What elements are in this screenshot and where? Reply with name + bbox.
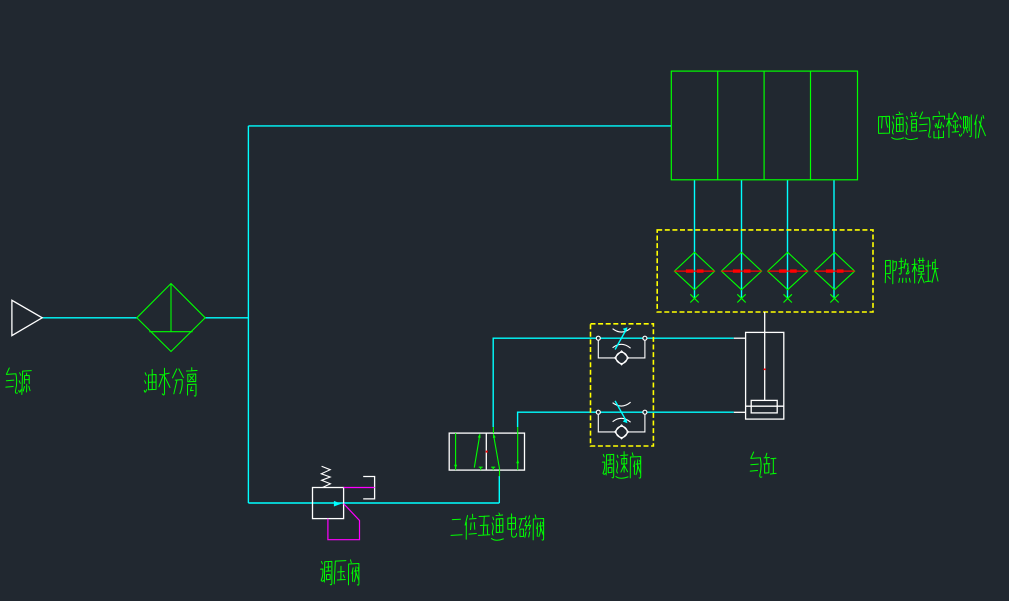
regulator feedback loop magenta bbox=[328, 504, 360, 540]
cylinder piston bbox=[751, 400, 777, 413]
heater H1 exhaust X bbox=[690, 294, 698, 302]
port circle left bbox=[596, 336, 600, 340]
wire source-to-separator bbox=[42, 317, 137, 319]
detector divider 3 bbox=[810, 71, 812, 180]
label four-channel detector bbox=[879, 112, 986, 140]
heater H1 red centerline bbox=[674, 270, 714, 272]
check valve seat diamond bbox=[615, 425, 629, 439]
port circle right bbox=[643, 336, 647, 340]
check valve loop bbox=[598, 338, 645, 358]
separator chord bbox=[149, 331, 192, 333]
valve red center dot bbox=[486, 451, 488, 453]
heater diamond H1 bbox=[674, 252, 714, 289]
heater H4 red centerline bbox=[814, 270, 854, 272]
cylinder piston line bbox=[746, 405, 784, 407]
wire bottom supply to regulator and valve bbox=[248, 502, 499, 504]
four-channel leak detector box U1 bbox=[671, 71, 857, 180]
valve port stubs green bbox=[493, 427, 517, 476]
valve flow arrow 4 (right cell vertical) bbox=[517, 433, 519, 470]
speed control valve V1 (top) bbox=[598, 328, 645, 365]
cylinder top port stub bbox=[734, 337, 746, 339]
heater H3 red centerline bbox=[768, 270, 808, 272]
regulator body square bbox=[313, 488, 344, 519]
heater H3 exhaust X bbox=[784, 294, 792, 302]
check valve ball bbox=[616, 426, 627, 437]
separator center line bbox=[170, 284, 172, 332]
check valve seat diamond bbox=[615, 351, 629, 365]
wire valve port A to top speed valve and cylinder bbox=[493, 338, 734, 427]
valve flow arrow 3 (right cell diagonal) bbox=[493, 434, 499, 470]
heater diamond H3 bbox=[768, 252, 808, 289]
label speed valve bbox=[602, 452, 640, 479]
label cylinder bbox=[750, 452, 776, 477]
oil-water separator diamond bbox=[137, 284, 205, 352]
adjust arrow bbox=[615, 401, 626, 421]
label air-source bbox=[6, 368, 31, 395]
speed valve dashed enclosure bbox=[591, 324, 654, 446]
label oil-water separator bbox=[144, 368, 197, 396]
rod red tick bbox=[764, 368, 766, 370]
heater diamond H2 bbox=[721, 252, 761, 289]
label 5/2 solenoid valve bbox=[451, 513, 544, 540]
air source triangle bbox=[12, 300, 42, 335]
valve flow arrow 1 (left cell vertical) bbox=[455, 433, 457, 470]
detector divider 1 bbox=[717, 71, 719, 180]
regulator right bracket bbox=[363, 477, 374, 499]
regulator flow arrow cyan bbox=[334, 501, 341, 507]
regulator spring bbox=[321, 466, 330, 487]
wire detector drop 1 bbox=[694, 180, 696, 298]
detector divider 2 bbox=[763, 71, 765, 180]
check valve ball bbox=[616, 352, 627, 363]
label pressure regulator bbox=[321, 560, 359, 585]
valve exhaust T marks bbox=[479, 467, 496, 470]
wire detector drop 3 bbox=[787, 180, 789, 298]
regulator pilot line magenta bbox=[344, 487, 375, 489]
speed control valve V2 (bottom) bbox=[598, 402, 645, 439]
cylinder bottom port stub bbox=[734, 411, 746, 413]
heater diamond H4 bbox=[814, 252, 854, 289]
valve divider bbox=[485, 433, 487, 470]
wire detector drop 4 bbox=[833, 180, 835, 298]
valve flow arrow 2 (left cell diagonal) bbox=[474, 434, 480, 467]
heater H4 exhaust X bbox=[830, 294, 838, 302]
port circle left bbox=[596, 410, 600, 414]
5/2 solenoid valve body bbox=[449, 433, 524, 470]
heater H2 red centerline bbox=[721, 270, 761, 272]
label heating module bbox=[885, 258, 938, 284]
wire valve port B to bottom speed valve and cylinder bbox=[518, 412, 734, 427]
wire detector drop 2 bbox=[741, 180, 743, 298]
heater H2 exhaust X bbox=[737, 294, 745, 302]
check valve loop bbox=[598, 412, 645, 432]
cylinder body bbox=[734, 312, 784, 419]
cylinder rod bbox=[764, 312, 766, 400]
wire valve inlet riser bbox=[498, 476, 500, 503]
wire riser-to-detector top bbox=[248, 125, 671, 127]
wire separator-to-riser bbox=[205, 317, 248, 319]
heating module dashed enclosure bbox=[657, 230, 873, 312]
adjust arrow bbox=[615, 329, 626, 349]
wire main riser vertical bbox=[247, 126, 249, 503]
throttle arcs bbox=[613, 402, 631, 422]
port circle right bbox=[643, 410, 647, 414]
throttle arcs bbox=[613, 328, 631, 348]
